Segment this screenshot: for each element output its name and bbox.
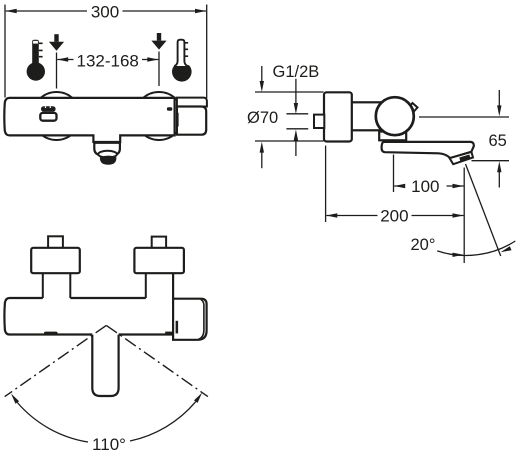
dim 65 lower arrow: [498, 172, 500, 188]
side view: body: [352, 102, 381, 130]
outlet vertical extension line: [463, 168, 465, 264]
dim 200 extension left: [325, 146, 327, 222]
stub upper tick: [286, 113, 308, 115]
bottom view: handle tick: [176, 321, 179, 334]
front view: logo plate: [40, 113, 56, 121]
bottom view: right neck: [145, 273, 147, 298]
bottom view: right inlet stub: [152, 237, 166, 249]
svg-text:100: 100: [411, 177, 439, 196]
bottom view: body end mark: [165, 332, 172, 335]
mounting arrow right: [157, 33, 161, 41]
front view: temperature handle: [177, 107, 206, 135]
svg-text:Ø70: Ø70: [247, 109, 278, 127]
dim 300 arrow right: [195, 9, 206, 13]
svg-text:110°: 110°: [92, 435, 126, 454]
dim 200 arrow right: [453, 213, 464, 217]
bottom view: mixer body outline: [4, 273, 173, 334]
dim d70 upper arrow: [261, 66, 263, 82]
front view: aerator outlet black: [100, 156, 117, 165]
hot thermometer bulb: [27, 62, 45, 80]
angle 20 arc: [437, 241, 515, 256]
dim 132-168 extension line right: [158, 52, 160, 87]
cold thermometer ticks: [184, 43, 188, 56]
dim 132-168 line: [57, 59, 158, 61]
bottom view: left union body: [31, 248, 80, 273]
swivel axis dash-dot right: [106, 325, 208, 396]
svg-text:200: 200: [380, 206, 408, 225]
bottom view: left neck: [43, 273, 71, 298]
flange bottom reference line: [255, 140, 324, 142]
front view: handle housing: [177, 98, 207, 107]
svg-text:132-168: 132-168: [77, 51, 139, 70]
swivel arc right: [130, 402, 196, 441]
hot thermometer ticks: [39, 43, 43, 56]
side view: G1/2B inlet stub: [314, 115, 324, 128]
front view: mixer body: [4, 98, 174, 142]
swivel arrow right: [194, 393, 202, 403]
front view: right wall rosette: [135, 92, 183, 140]
dim 300 arrow left: [6, 9, 17, 13]
bottom view: right union body: [134, 248, 184, 273]
swivel axis dash-dot left: [5, 325, 107, 396]
dim 200 line: [326, 215, 463, 217]
side view: aerator body: [450, 152, 473, 164]
angle 20 arrow left: [453, 253, 464, 257]
mounting arrow left: [54, 34, 58, 42]
front view: logo text mark: [41, 106, 56, 112]
stub lower tick: [286, 128, 308, 130]
front view: spout cup top bar: [94, 141, 120, 144]
dim 300 extension line right: [206, 5, 208, 99]
front view: left wall rosette: [33, 92, 81, 140]
dim 65 upper arrow: [498, 90, 500, 106]
svg-text:G1/2B: G1/2B: [273, 63, 320, 81]
swivel arc left: [17, 403, 88, 443]
stub lower arrow: [295, 140, 297, 156]
bottom view: left inlet stub: [48, 236, 63, 248]
front view: spout cup: [94, 142, 120, 156]
dim 132-168 extension line left: [56, 53, 58, 89]
outlet bottom tick: [472, 160, 510, 162]
dim 200 arrow left: [326, 213, 337, 217]
dim G1/2B leader arrow: [295, 79, 297, 104]
cold thermometer stem: [174, 40, 187, 66]
dim 100 arrow left: [394, 184, 405, 188]
angle 20 arrow right: [501, 246, 512, 252]
hot thermometer stem: [32, 40, 39, 65]
bottom view: handle: [173, 299, 207, 340]
axis reference line: [419, 116, 509, 118]
svg-text:65: 65: [489, 132, 507, 150]
water stream line: [466, 164, 501, 256]
dim 132-168 arrow right: [147, 57, 158, 61]
swivel arrow left: [11, 394, 19, 404]
side view: aerator screen: [459, 155, 470, 162]
svg-text:300: 300: [91, 3, 119, 22]
dim 100 extension left: [393, 155, 395, 193]
bottom view: logo mark: [44, 332, 58, 335]
front view: aerator ring: [98, 151, 117, 158]
hot thermometer notch: [33, 41, 38, 44]
side view: collar under knob: [379, 132, 406, 141]
side view: safety button tab: [408, 103, 418, 113]
dim 300 line: [6, 10, 206, 12]
dim d70 lower arrow: [261, 152, 263, 168]
side view: thermostat knob: [376, 97, 414, 135]
front view: handle gap bar: [176, 113, 178, 127]
cold thermometer bulb: [172, 62, 192, 82]
side view: wall flange: [324, 92, 352, 141]
dim 300 extension line left: [4, 5, 6, 98]
front view: handle index tick: [167, 107, 172, 110]
dim 100 line: [394, 185, 463, 187]
bottom view: handle inner contour: [199, 299, 204, 339]
flange top reference line: [255, 91, 324, 93]
dim 132-168 arrow left: [57, 57, 68, 61]
bottom view: spout tube: [92, 335, 118, 396]
svg-text:20°: 20°: [411, 236, 436, 254]
dim 100 arrow right: [453, 184, 464, 188]
side view: spout: [382, 142, 474, 158]
